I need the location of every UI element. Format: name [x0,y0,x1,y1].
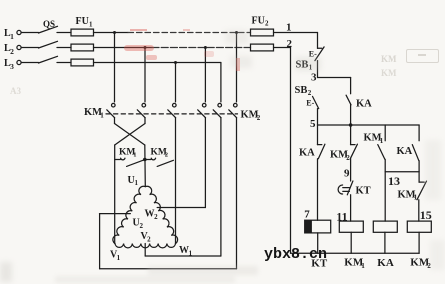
svg-text:KA: KA [397,146,413,157]
svg-text:W: W [179,245,189,256]
svg-text:KA: KA [299,148,315,159]
svg-text:1: 1 [133,152,136,159]
svg-text:9: 9 [344,167,350,179]
svg-text:QS: QS [43,19,55,29]
svg-text:ybx8.cn: ybx8.cn [264,246,327,263]
svg-text:3: 3 [311,71,317,83]
svg-text:3: 3 [10,62,14,71]
svg-text:2: 2 [147,235,151,243]
svg-text:KA: KA [377,257,394,269]
svg-text:1: 1 [117,254,121,262]
svg-text:KA: KA [356,99,372,110]
svg-text:1: 1 [414,194,418,202]
svg-text:1: 1 [135,179,139,187]
svg-text:15: 15 [420,208,432,222]
svg-text:2: 2 [140,222,144,230]
svg-text:2: 2 [308,89,312,97]
svg-text:2: 2 [346,154,350,162]
svg-text:13: 13 [388,174,400,188]
svg-text:1: 1 [361,262,365,270]
svg-text:7: 7 [304,209,310,221]
svg-text:1: 1 [100,111,104,119]
svg-text:W: W [145,209,155,220]
svg-text:2: 2 [287,38,293,50]
svg-text:2: 2 [10,47,14,56]
svg-text:2: 2 [257,114,261,122]
svg-text:FU: FU [76,16,89,27]
svg-text:FU: FU [252,15,265,26]
svg-text:KT: KT [356,185,371,196]
svg-text:SB: SB [295,85,308,96]
svg-text:1: 1 [286,21,292,33]
svg-text:E-: E- [306,98,314,107]
svg-text:5: 5 [310,118,316,130]
svg-text:2: 2 [154,213,158,221]
svg-text:2: 2 [165,152,168,159]
svg-text:2: 2 [265,20,269,28]
svg-text:1: 1 [380,137,384,145]
svg-text:1: 1 [189,249,193,257]
svg-text:1: 1 [89,21,93,29]
svg-text:11: 11 [336,209,347,223]
svg-text:1: 1 [10,32,14,41]
